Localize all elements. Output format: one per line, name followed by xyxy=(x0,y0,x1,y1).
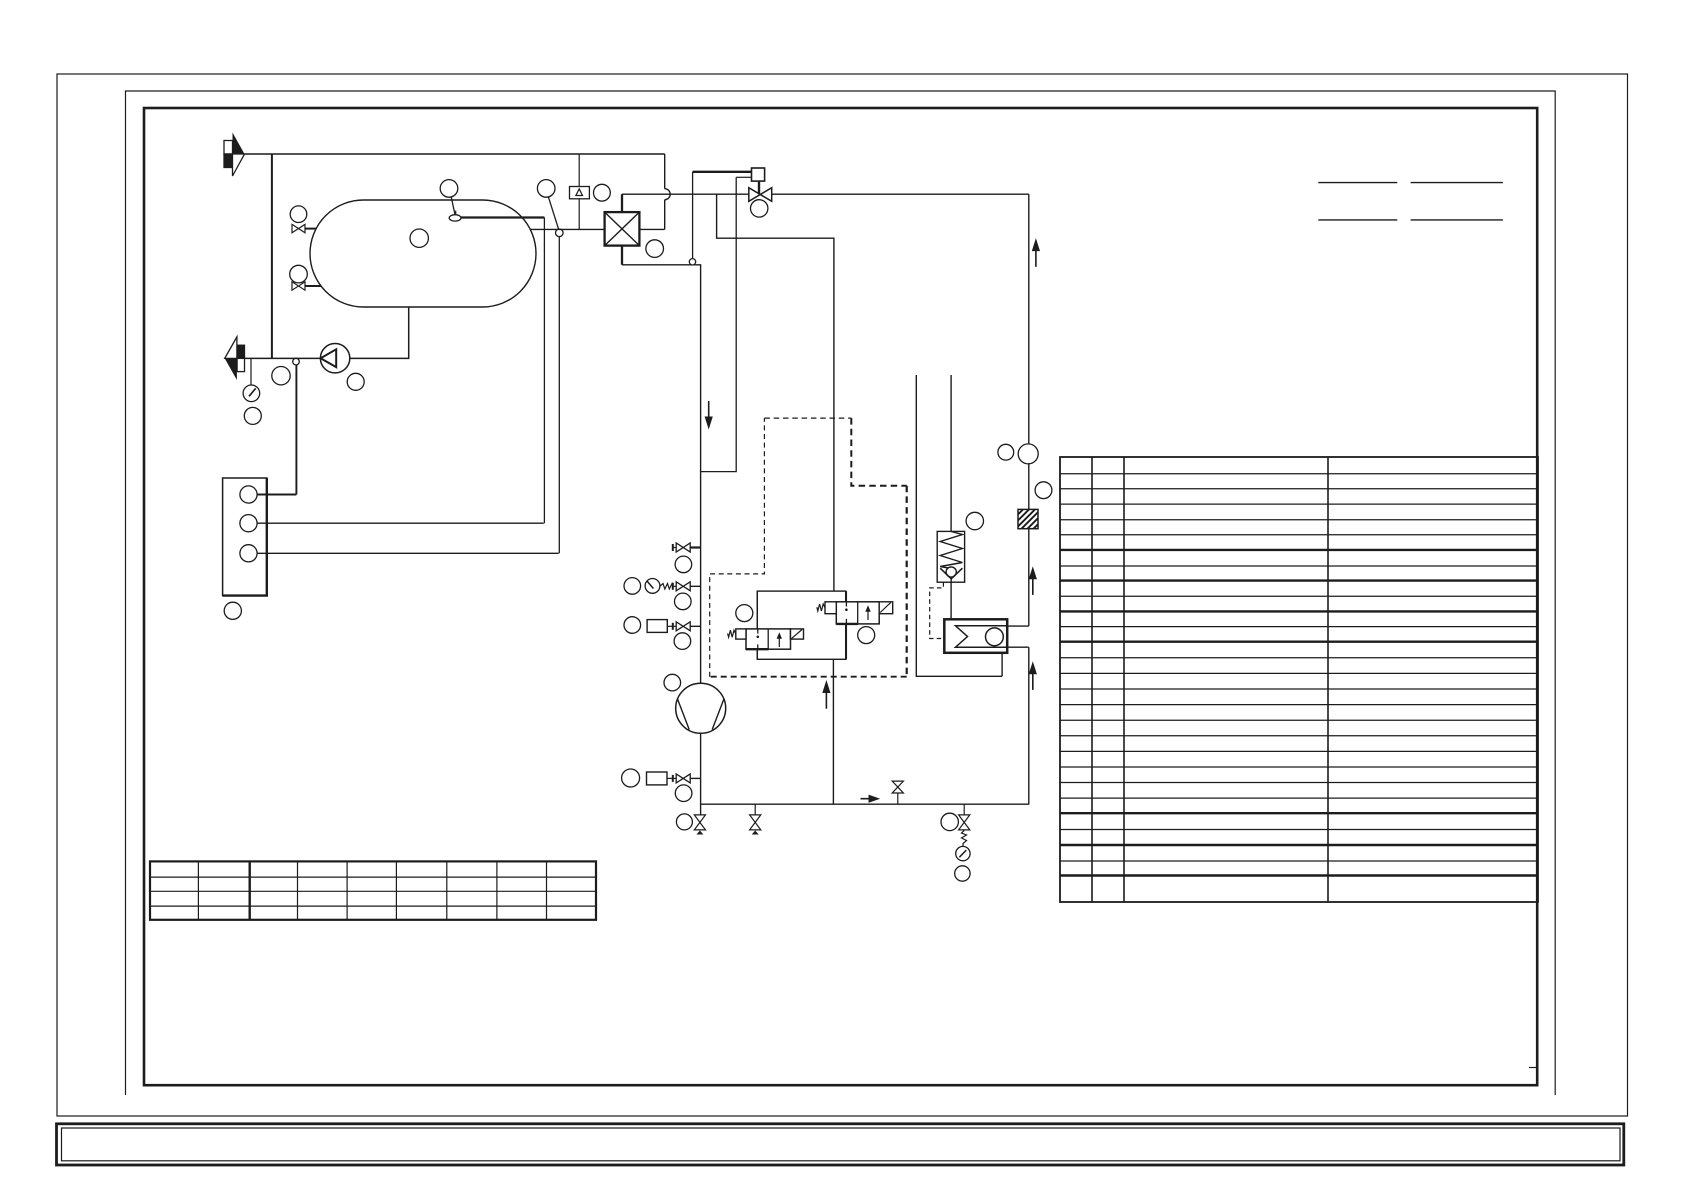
exchanger bottom port riser xyxy=(621,246,623,265)
safety temperature limiter box xyxy=(570,187,590,199)
solenoid valve V2 (spring return) xyxy=(817,602,893,624)
instrument circle left of gauge B xyxy=(624,578,641,595)
flow arrow up on header drop xyxy=(1032,238,1040,267)
V2 top port line xyxy=(845,591,847,602)
pressure switch box D xyxy=(647,772,668,785)
vent valve on manifold xyxy=(892,781,903,804)
solenoid manifold frame xyxy=(757,591,845,659)
legend line row2 col2 xyxy=(1411,219,1503,221)
middle border frame xyxy=(126,91,1556,1095)
gas tap line to solenoid manifold xyxy=(717,194,834,591)
burner upper outlet xyxy=(1007,625,1029,627)
instrument circle below gauge xyxy=(955,866,970,881)
flow arrow up at outlet xyxy=(1029,566,1037,595)
regulator supply line xyxy=(950,375,952,531)
bypass pipe down xyxy=(271,154,273,358)
pressure regulator with spring xyxy=(937,531,964,582)
inner thick border frame xyxy=(144,108,1537,1085)
V1 top port line xyxy=(756,591,758,629)
storage tank B1 xyxy=(310,200,536,307)
revision table (bottom left, empty) xyxy=(150,861,596,919)
exchanger left pipe to tank xyxy=(530,228,604,230)
flow arrow up at riser xyxy=(1029,661,1037,690)
signal line down-left xyxy=(701,177,737,471)
shut-off valve D xyxy=(667,774,701,783)
burner bottom drain xyxy=(1001,653,1003,677)
return pipe xyxy=(245,307,409,358)
flow arrow right xyxy=(861,795,881,803)
footer bar outer xyxy=(57,1124,1624,1165)
flame arrestor (hatched) xyxy=(1018,509,1038,528)
controller port line 2 xyxy=(257,522,544,524)
manifold outlet pipe down xyxy=(832,659,834,804)
pipe below blower xyxy=(700,733,702,815)
instrument circle below controller xyxy=(224,602,241,619)
shut-off valve B xyxy=(673,582,701,591)
legend line row1 col2 xyxy=(1411,182,1503,184)
instrument circle left of switch D xyxy=(622,769,640,787)
instrument circle below pump xyxy=(347,373,364,390)
level signal line down xyxy=(543,218,545,524)
hand valve tank top left xyxy=(290,206,316,233)
circulating pump P1 xyxy=(320,344,349,373)
instrument circle above blower xyxy=(664,674,681,691)
legend line row2 col1 xyxy=(1318,219,1397,221)
burner lower inlet xyxy=(1007,646,1029,648)
actuator signal line (thick) xyxy=(693,171,752,173)
valve stem xyxy=(758,181,760,194)
instrument circle below exchanger xyxy=(646,240,664,258)
exchanger top port riser xyxy=(621,194,623,212)
pressure gauge PI xyxy=(243,385,260,402)
gauge damping loop xyxy=(660,584,676,590)
instrument circle at return xyxy=(272,367,290,385)
instrument circle left of manifold xyxy=(736,605,753,622)
limiter signal line xyxy=(578,154,580,187)
heat exchanger W1 xyxy=(605,212,640,246)
tick mark right frame xyxy=(1529,1067,1537,1069)
burner gas outlet pipe up xyxy=(1028,529,1030,626)
parts list table (right, empty) xyxy=(1060,457,1538,902)
crossing hop arc xyxy=(665,189,671,200)
instrument circle beside limiter xyxy=(594,184,611,201)
signal line down to controller xyxy=(558,237,560,554)
exchanger right port connector xyxy=(639,228,664,230)
motor control valve (bowtie) xyxy=(749,188,772,202)
instrument circle at drain 1 xyxy=(676,814,692,830)
supply connection arrow (flow in) xyxy=(224,133,245,177)
pressure gauge tap xyxy=(250,358,252,385)
dashed unit boundary xyxy=(710,418,907,677)
junction node on exchanger line xyxy=(556,229,564,237)
exchanger outlet pipe xyxy=(622,265,701,684)
instrument circle right of arrestor line xyxy=(1035,482,1052,499)
burner return line xyxy=(916,375,1002,676)
regulator impulse line (dashed) xyxy=(930,582,945,638)
pressure gauge at valve 3 xyxy=(956,846,970,860)
level gauge line (thick) xyxy=(461,216,545,218)
instrument circle below valve C xyxy=(674,633,691,650)
shut-off valve A xyxy=(673,543,701,552)
temperature instrument top right xyxy=(537,180,558,230)
junction node on outlet xyxy=(689,259,695,265)
drain valve 1 xyxy=(694,815,705,835)
controller port line 3 xyxy=(257,552,559,554)
return connection arrow (flow out) xyxy=(225,337,245,380)
controller port line 1 xyxy=(257,494,296,496)
legend line row1 col1 xyxy=(1318,182,1397,184)
pressure gauge B xyxy=(645,579,660,594)
level controller block xyxy=(223,478,267,596)
pipe from supply header down to exchanger (with crossing hop) xyxy=(664,154,666,229)
flow arrow down xyxy=(705,401,713,430)
instrument circle below valve B xyxy=(675,593,692,610)
tank vent instrument xyxy=(440,180,461,222)
solenoid valve V1 (spring return) xyxy=(728,629,804,649)
signal line down from junction xyxy=(295,365,297,495)
pipe from header to arrestor xyxy=(1028,194,1030,444)
V2 bottom port line xyxy=(845,624,847,659)
manifold header pipe xyxy=(701,803,1030,805)
regulator outlet to burner xyxy=(950,582,952,619)
instrument circle below valve xyxy=(751,200,768,217)
instrument circle below gauge xyxy=(244,407,261,424)
actuator signal drop line xyxy=(692,172,694,259)
supply pipe (top header) xyxy=(245,153,665,155)
main gas pipe header xyxy=(622,193,1029,195)
flow arrow up beside outlet xyxy=(822,680,830,709)
burner unit xyxy=(944,619,1007,653)
V1 bottom port line xyxy=(756,649,758,659)
instrument circle pair on drop xyxy=(998,444,1014,460)
hand valve tank bottom left xyxy=(290,265,321,290)
instrument circle below valve A xyxy=(675,556,692,573)
pressure switch box C xyxy=(647,620,667,633)
footer bar inner xyxy=(62,1128,1621,1161)
instrument circle below valve D xyxy=(675,785,692,802)
instrument circle below V2 xyxy=(858,627,875,644)
tank instrument circle xyxy=(410,229,428,247)
shut-off valve C xyxy=(667,622,700,631)
junction node at return line xyxy=(293,358,300,365)
drain valve 2 xyxy=(750,804,761,834)
instrument circle at valve 3 xyxy=(941,813,958,830)
instrument circle right of regulator xyxy=(966,512,983,529)
test point valve 3 xyxy=(959,804,970,830)
riser from manifold to burner xyxy=(1028,647,1030,804)
valve actuator box xyxy=(752,168,765,181)
gas blower G1 xyxy=(676,683,726,733)
actuator thin signal line xyxy=(736,176,751,178)
instrument circle left of switch C xyxy=(624,617,641,634)
gauge loop below valve 3 xyxy=(962,831,967,847)
